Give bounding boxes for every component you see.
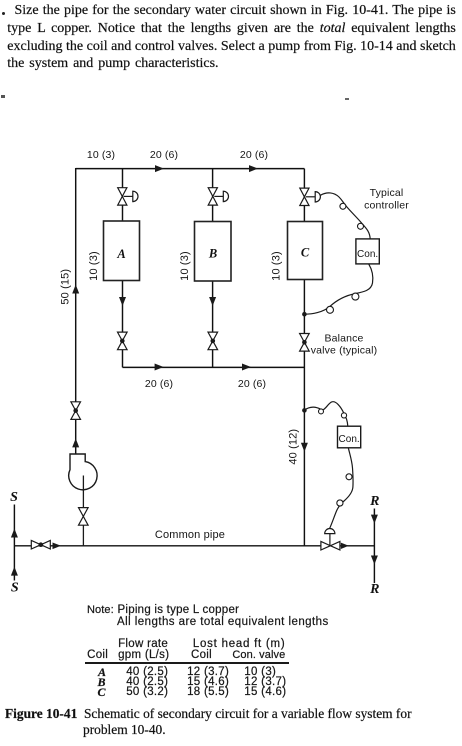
controller box Con.1 (356, 239, 379, 264)
flow arrow above pump up (72, 438, 79, 447)
svg-text:Con.: Con. (357, 249, 378, 260)
wire: bottom return header (123, 366, 305, 368)
control line: valve C actuator to controller Con.1 (320, 193, 370, 239)
svg-text:R: R (369, 494, 379, 509)
pump P1 (69, 454, 97, 490)
control line: Con.1 to node below coil C (304, 264, 372, 314)
svg-text:20 (6): 20 (6) (240, 149, 268, 161)
svg-text:20 (6): 20 (6) (238, 378, 266, 390)
wire: return main R (373, 509, 375, 584)
svg-text:valve (typical): valve (typical) (311, 345, 377, 357)
flow arrow coil B down (209, 297, 216, 306)
control valve on common pipe right (321, 529, 340, 550)
svg-text:S: S (11, 581, 19, 596)
figure caption (5, 706, 462, 737)
svg-text:A: A (116, 247, 125, 261)
svg-text:R: R (369, 582, 379, 597)
svg-text:Common pipe: Common pipe (155, 529, 225, 541)
control valve V1 at coil A (118, 188, 138, 205)
svg-text:40 (12): 40 (12) (288, 429, 300, 465)
flow arrow S lower up (11, 567, 18, 576)
flow arrow common pipe left (53, 543, 62, 550)
table row C (98, 685, 106, 700)
control line loop (346, 474, 352, 480)
table header row 1 (118, 638, 168, 650)
balance valve coil A (118, 332, 128, 350)
flow arrow return header 1 (155, 364, 164, 371)
wire: pump suction drop (82, 476, 84, 546)
table header row 2 (87, 649, 108, 661)
valve below pump (79, 508, 89, 526)
coil B (195, 222, 232, 282)
flow arrow S upper up (11, 529, 18, 538)
coil C (288, 222, 323, 280)
flow arrow top header 1 (155, 165, 164, 172)
wire: coil C branch and 40(12) riser (303, 169, 305, 546)
control valve V3 at coil C (300, 188, 321, 205)
control line loop (341, 413, 346, 418)
flow arrow riser up (72, 285, 79, 294)
svg-text:10 (3): 10 (3) (179, 251, 191, 281)
flow arrow common pipe right (341, 543, 349, 549)
svg-text:Balance: Balance (325, 333, 364, 345)
wire: left supply riser 50(15) (75, 168, 77, 454)
table row A (98, 665, 106, 680)
balance valve coil C (300, 334, 310, 352)
control line: node on 40(12) riser to Con.2 (304, 402, 348, 427)
svg-text:10 (3): 10 (3) (271, 251, 283, 281)
svg-text:10 (3): 10 (3) (87, 149, 115, 161)
note block (87, 604, 114, 616)
wire: supply main S (13, 505, 15, 581)
control line loop (319, 409, 324, 414)
controller box Con.2 (338, 426, 361, 448)
wire: top supply header (76, 168, 305, 170)
wire: coil B branch (212, 169, 214, 368)
balance valve on riser above pump (71, 402, 81, 420)
control line loop (340, 203, 346, 209)
svg-text:20 (6): 20 (6) (150, 149, 178, 161)
table rule (85, 662, 290, 664)
svg-text:B: B (208, 247, 217, 261)
svg-text:20 (6): 20 (6) (145, 378, 173, 390)
svg-text:controller: controller (364, 200, 409, 212)
balance valve coil B (208, 332, 218, 350)
scan speck mid (345, 98, 349, 100)
scan speck left (1, 95, 5, 98)
flow arrow R upper down (371, 515, 378, 524)
control line loop (337, 500, 343, 506)
control line: Con.2 to control valve actuator (329, 448, 353, 529)
flow arrow 40(12) riser down (301, 443, 308, 452)
svg-text:Typical: Typical (370, 187, 404, 199)
control valve V2 at coil B (208, 188, 228, 205)
stray list-number period (2, 12, 5, 15)
flow arrow coil A down (119, 297, 126, 306)
flow arrow R lower down (371, 556, 378, 565)
wire: coil A branch (122, 169, 124, 368)
coil A (104, 221, 140, 281)
table row B (98, 675, 106, 690)
wire: common pipe (14, 545, 374, 547)
valve on common pipe left (31, 540, 50, 549)
control line loop (358, 223, 364, 229)
svg-text:10 (3): 10 (3) (88, 251, 100, 281)
svg-text:Con.: Con. (339, 434, 360, 445)
node on 40(12) riser (302, 408, 307, 413)
flow arrow top header 2 (249, 165, 258, 172)
svg-text:C: C (301, 246, 310, 260)
flow arrow return header 2 (242, 364, 251, 371)
svg-text:50 (15): 50 (15) (60, 269, 72, 305)
problem paragraph (7, 2, 456, 73)
svg-text:S: S (10, 490, 18, 505)
control line loop (352, 293, 359, 300)
node at coil C return (302, 312, 307, 317)
control line loop (327, 306, 334, 313)
